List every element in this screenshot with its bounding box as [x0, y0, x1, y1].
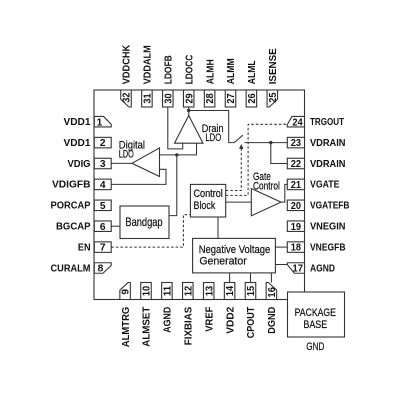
- pin 6 BGCAP: [56, 221, 111, 233]
- pin 5 PORCAP: [51, 200, 112, 212]
- svg-text:VDRAIN: VDRAIN: [310, 159, 346, 170]
- pin 32 VDDCHK: [121, 44, 133, 107]
- svg-text:17: 17: [293, 264, 304, 275]
- wire NVG to pin17 AGND: [275, 264, 288, 266]
- svg-text:BGCAP: BGCAP: [56, 222, 91, 233]
- Digital LDO amplifier triangle: [132, 148, 160, 177]
- svg-text:18: 18: [291, 243, 302, 254]
- pin 27 ALMM: [225, 58, 237, 107]
- wire NVG to pin15 CPOUT: [250, 273, 252, 283]
- svg-text:4: 4: [100, 180, 106, 191]
- svg-text:13: 13: [204, 286, 215, 297]
- wire pin29 LDOCC to Drain LDO apex: [188, 107, 190, 116]
- pin 8 CURALM: [51, 263, 112, 275]
- node junction on VDRAIN line: [269, 141, 272, 144]
- svg-text:VDIG: VDIG: [68, 159, 91, 170]
- svg-text:VDD1: VDD1: [64, 138, 91, 149]
- svg-text:31: 31: [143, 93, 154, 104]
- pin 10 ALMSET: [141, 283, 153, 347]
- pin 26 ALML: [246, 60, 258, 107]
- svg-text:CPOUT: CPOUT: [246, 306, 257, 338]
- wire pin4 VDIGFB feedback to Digital LDO base: [111, 169, 166, 184]
- svg-text:CURALM: CURALM: [51, 263, 91, 274]
- svg-text:LDO: LDO: [205, 132, 221, 144]
- svg-text:32: 32: [122, 92, 133, 103]
- svg-text:DGND: DGND: [267, 306, 278, 333]
- svg-text:29: 29: [184, 93, 195, 104]
- svg-text:AGND: AGND: [163, 306, 174, 332]
- svg-text:ISENSE: ISENSE: [268, 48, 279, 84]
- package base pad: [288, 292, 345, 337]
- pin 14 VDD2: [224, 283, 236, 334]
- svg-text:LDOCC: LDOCC: [184, 54, 195, 84]
- svg-text:FIXBIAS: FIXBIAS: [184, 307, 195, 346]
- Drain LDO amplifier triangle: [175, 116, 204, 144]
- wire rail down to Bandgap: [169, 155, 177, 216]
- svg-text:6: 6: [100, 222, 106, 233]
- pin 15 CPOUT: [245, 283, 257, 339]
- wire pin3 VDIG to Digital LDO apex: [111, 162, 132, 164]
- pin 24 TRGOUT: [287, 116, 344, 128]
- svg-text:26: 26: [247, 93, 258, 104]
- pin 2 VDD1: [64, 137, 112, 149]
- svg-text:16: 16: [267, 287, 278, 298]
- node junction at Drain LDO output: [187, 109, 190, 112]
- svg-text:VNEGIN: VNEGIN: [310, 222, 346, 233]
- wire Gate Control output to pin21 VGATE: [281, 184, 287, 202]
- svg-text:Bandgap: Bandgap: [125, 216, 163, 229]
- svg-text:VDDALM: VDDALM: [143, 45, 154, 84]
- svg-text:VREF: VREF: [204, 307, 215, 332]
- svg-text:30: 30: [163, 93, 174, 104]
- wire pin30 LDOFB to Drain LDO base: [168, 107, 183, 149]
- svg-text:22: 22: [291, 159, 302, 170]
- pin 13 VREF: [203, 283, 215, 332]
- pin 7 EN: [78, 242, 111, 254]
- pin 3 VDIG: [68, 158, 112, 170]
- pin 21 VGATE: [287, 179, 339, 191]
- pin 4 VDIGFB: [52, 179, 111, 191]
- svg-text:AGND: AGND: [310, 263, 335, 274]
- svg-text:14: 14: [225, 286, 236, 297]
- pin 29 LDOCC: [183, 54, 195, 107]
- wire Control Block to Gate Control input: [226, 201, 252, 203]
- svg-text:ALML: ALML: [247, 60, 258, 85]
- svg-text:9: 9: [121, 289, 132, 295]
- svg-text:LDOFB: LDOFB: [164, 55, 175, 84]
- chip body: [94, 90, 305, 300]
- svg-text:VDIGFB: VDIGFB: [52, 180, 91, 191]
- svg-text:28: 28: [205, 93, 216, 104]
- pin 11 AGND: [162, 283, 174, 333]
- dashed net Control Block to pin24 TRGOUT: [226, 124, 289, 195]
- svg-text:25: 25: [268, 92, 279, 103]
- node junction on LDO rail: [175, 153, 178, 156]
- svg-text:VNEGFB: VNEGFB: [310, 242, 346, 253]
- svg-text:Control: Control: [253, 181, 280, 193]
- svg-text:PORCAP: PORCAP: [51, 201, 91, 212]
- pin 16 DGND: [266, 283, 278, 334]
- svg-text:27: 27: [226, 93, 237, 104]
- svg-text:VGATEFB: VGATEFB: [310, 201, 350, 212]
- svg-text:8: 8: [98, 264, 104, 275]
- wire NVG to pin14 VDD2: [229, 273, 231, 283]
- svg-text:GND: GND: [306, 341, 324, 353]
- svg-text:19: 19: [291, 222, 302, 233]
- pin 1 VDD1: [64, 116, 112, 128]
- Control Block: [190, 184, 225, 217]
- dashed net EN pin7 to Control Block: [111, 215, 190, 247]
- pin 20 VGATEFB: [287, 200, 350, 212]
- svg-text:VDRAIN: VDRAIN: [310, 138, 346, 149]
- svg-text:Generator: Generator: [199, 256, 247, 268]
- svg-text:ALMH: ALMH: [205, 59, 216, 84]
- wire Digital LDO output rail: [160, 143, 197, 155]
- wire NVG to pin18 VNEGFB: [275, 246, 287, 248]
- wire NVG to pin16 DGND: [270, 273, 272, 283]
- svg-text:LDO: LDO: [119, 149, 134, 161]
- svg-text:Negative Voltage: Negative Voltage: [199, 244, 271, 256]
- svg-text:Block: Block: [194, 200, 216, 212]
- pin 22 VDRAIN: [287, 158, 345, 170]
- svg-text:3: 3: [100, 159, 106, 170]
- svg-text:TRGOUT: TRGOUT: [310, 117, 344, 128]
- svg-text:BASE: BASE: [303, 319, 327, 331]
- arrowhead at switch: [239, 144, 243, 149]
- svg-text:21: 21: [291, 180, 302, 191]
- Gate Control amplifier triangle: [251, 189, 281, 216]
- switch arm: [234, 135, 243, 143]
- pin 19 VNEGIN: [287, 221, 345, 233]
- wire Control Block to Negative Voltage Generator: [217, 217, 219, 238]
- svg-text:24: 24: [292, 117, 303, 128]
- pin 28 ALMH: [204, 59, 216, 107]
- svg-text:Control: Control: [194, 188, 223, 200]
- pin 17 AGND: [287, 263, 335, 275]
- svg-text:2: 2: [100, 138, 106, 149]
- pin 9 ALMTRG: [120, 283, 132, 348]
- dashed net Control Block to switch: [226, 149, 242, 191]
- svg-text:EN: EN: [78, 242, 91, 253]
- svg-text:5: 5: [100, 201, 106, 212]
- svg-text:11: 11: [163, 286, 174, 297]
- pin 25 ISENSE: [267, 48, 279, 107]
- Negative Voltage Generator block: [193, 238, 276, 273]
- pin 30 LDOFB: [163, 55, 175, 107]
- svg-text:ALMSET: ALMSET: [142, 306, 153, 347]
- wire Drain LDO output to switch: [189, 111, 234, 143]
- Bandgap block: [120, 206, 169, 239]
- svg-text:PACKAGE: PACKAGE: [295, 307, 336, 319]
- wire branch to pin22 VDRAIN: [271, 143, 288, 164]
- pin 18 VNEGFB: [287, 242, 346, 254]
- pin 31 VDDALM: [142, 45, 154, 107]
- svg-text:15: 15: [246, 286, 257, 297]
- svg-text:VDD1: VDD1: [64, 117, 91, 128]
- pin 23 VDRAIN: [287, 137, 345, 149]
- wire switch to pin23 VDRAIN: [245, 142, 288, 144]
- svg-text:20: 20: [291, 201, 302, 212]
- svg-text:ALMTRG: ALMTRG: [121, 307, 132, 348]
- svg-text:VGATE: VGATE: [310, 180, 340, 191]
- wire pin6 BGCAP to Bandgap: [111, 225, 120, 227]
- svg-text:VDDCHK: VDDCHK: [122, 44, 133, 84]
- svg-text:7: 7: [100, 243, 106, 254]
- svg-text:ALMM: ALMM: [226, 58, 237, 84]
- svg-text:12: 12: [183, 286, 194, 297]
- svg-text:10: 10: [142, 286, 153, 297]
- svg-text:23: 23: [291, 138, 302, 149]
- svg-text:1: 1: [97, 117, 103, 128]
- pin 12 FIXBIAS: [183, 283, 195, 346]
- svg-text:VDD2: VDD2: [225, 306, 236, 333]
